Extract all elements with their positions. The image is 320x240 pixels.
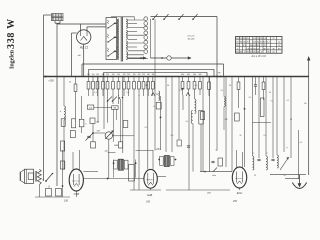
resistor R13 <box>187 77 190 96</box>
wire vertical V21 <box>202 77 204 172</box>
svg-text:1798: 1798 <box>73 192 79 196</box>
wire main HT bus <box>44 76 309 78</box>
bus junction right <box>216 76 218 78</box>
svg-text:242: 242 <box>145 201 151 204</box>
wire vertical V17 <box>188 95 190 190</box>
mains plug X1 <box>52 14 64 21</box>
wire vertical V5 <box>112 96 114 104</box>
wire second mains rail <box>56 26 58 186</box>
wire vertical V6 <box>118 95 120 104</box>
coil L11 <box>159 91 160 101</box>
coil L7 <box>266 156 267 170</box>
IF transformer IFT2 <box>160 156 174 167</box>
svg-text:2M: 2M <box>145 85 148 87</box>
svg-text:1M: 1M <box>87 74 90 76</box>
pickup arrowhead 2 <box>188 56 192 59</box>
wire vertical V4 <box>122 77 124 154</box>
resistor R12 <box>142 77 145 97</box>
coil L10 <box>224 77 225 130</box>
resistor R16 <box>208 77 211 97</box>
box R25 <box>60 161 65 169</box>
resistor R2 <box>92 77 95 97</box>
svg-text:5x8: 5x8 <box>89 107 92 109</box>
potentiometer P1 <box>105 130 113 139</box>
wire tube V4 bottom <box>239 188 241 190</box>
wire left mains rail <box>43 15 45 181</box>
wire bottom bus 2 <box>130 189 161 191</box>
resistor R11 <box>138 77 141 97</box>
svg-text:+250: +250 <box>48 80 54 83</box>
wire tube left lead <box>72 33 77 77</box>
wire vertical V25 <box>231 77 233 172</box>
box R27 <box>61 141 65 151</box>
wire vertical V27 <box>252 77 254 157</box>
wire vertical V34 <box>298 130 300 179</box>
wire vertical V11 <box>154 19 156 150</box>
wire tube1 right top <box>83 171 98 173</box>
svg-text:1M: 1M <box>102 74 105 76</box>
svg-text:1M: 1M <box>133 74 136 76</box>
svg-text:5k: 5k <box>269 92 271 94</box>
ground symbol E1 <box>292 175 306 189</box>
box IFT1 shield <box>129 165 135 182</box>
resistor R20a box <box>61 119 65 127</box>
wire transformer secondary taps <box>128 20 148 59</box>
wire vertical V9 <box>147 77 149 170</box>
bus junction left <box>45 76 47 78</box>
resistor R8 <box>123 77 126 97</box>
svg-text:50k: 50k <box>198 74 201 76</box>
capacitor C7 <box>271 158 274 160</box>
box C3 <box>153 103 161 110</box>
wire top switch bus <box>151 16 218 18</box>
wire right rail <box>308 58 310 176</box>
svg-text:50k: 50k <box>193 74 196 76</box>
svg-text:0,1: 0,1 <box>186 121 189 123</box>
svg-text:1M: 1M <box>225 119 228 121</box>
svg-text:50-150: 50-150 <box>188 39 196 41</box>
wire tube V3 bottom <box>150 188 152 190</box>
svg-text:ECH: ECH <box>237 191 243 195</box>
svg-text:0,5: 0,5 <box>195 85 198 87</box>
coil L3 <box>195 99 196 114</box>
svg-text:50k: 50k <box>181 74 184 76</box>
wire IFT1 left <box>108 151 153 178</box>
svg-text:1M: 1M <box>106 74 109 76</box>
junction dots S5 <box>119 97 121 99</box>
svg-text:*C: *C <box>270 101 273 103</box>
wire pickup line 2 <box>151 57 192 59</box>
coil L2 <box>64 77 65 171</box>
box R28 <box>118 142 122 148</box>
wire top rail y24 <box>57 23 106 25</box>
wire ladder bottom drop <box>150 55 152 58</box>
svg-text:+Hm: +Hm <box>155 148 160 151</box>
svg-text:+An: +An <box>104 150 108 153</box>
wire vertical V16 <box>182 95 184 110</box>
coil L8 <box>277 155 278 168</box>
pickup dot 2 <box>161 57 163 59</box>
wire R20c leads <box>81 96 83 133</box>
wire x62 <box>62 150 64 197</box>
svg-text:0.5-1.5: 0.5-1.5 <box>188 36 196 38</box>
svg-text:338 W: 338 W <box>6 18 17 49</box>
svg-text:1M: 1M <box>142 74 145 76</box>
IFT1 junction dots <box>113 162 115 164</box>
wire tube2 right <box>157 176 166 178</box>
resistor R10 <box>133 77 136 97</box>
wire ground line <box>270 174 306 176</box>
box R31 <box>177 140 181 146</box>
speaker LS1 <box>20 169 33 183</box>
wire tube V2 bottom <box>75 191 77 197</box>
svg-text:50: 50 <box>69 82 71 84</box>
box R21 <box>199 111 204 125</box>
wire P1 right <box>113 135 135 137</box>
box F1 <box>46 189 52 197</box>
wire rail C <box>104 72 207 76</box>
svg-text:1M: 1M <box>123 74 126 76</box>
tube V4 <box>232 167 246 188</box>
svg-text:2k: 2k <box>240 135 242 137</box>
svg-text:0,1: 0,1 <box>179 90 182 92</box>
wire vertical V33 <box>290 77 292 159</box>
wire bottom bus 3 <box>166 189 230 191</box>
wire coil bottom <box>38 185 40 197</box>
svg-text:250: 250 <box>206 193 211 195</box>
IFT2 junction dots <box>158 159 160 161</box>
svg-text:0,1: 0,1 <box>300 142 303 144</box>
svg-text:0,1: 0,1 <box>287 100 290 102</box>
svg-text:50: 50 <box>229 85 231 87</box>
resistor R19 <box>74 77 77 119</box>
resistor R15 <box>199 77 202 96</box>
wire rail A <box>82 64 224 77</box>
coil L6 <box>253 156 254 170</box>
right rail arrowhead <box>307 56 310 61</box>
svg-text:0,1: 0,1 <box>127 92 130 94</box>
wire vertical V30 <box>272 77 274 159</box>
field coil L9 zigzag <box>35 169 41 184</box>
box 10k <box>91 142 96 148</box>
wire AVC line <box>200 171 232 173</box>
wire tube pins up <box>81 24 107 30</box>
wire vertical V28 <box>258 77 260 159</box>
svg-text:25: 25 <box>254 175 256 177</box>
resistor R20c box <box>79 119 84 127</box>
wire vertical V3 <box>107 96 109 123</box>
voltage table <box>236 37 283 54</box>
resistor R14 <box>193 77 196 96</box>
wire bottom left bus <box>35 196 70 198</box>
bus dot x220 <box>220 76 222 78</box>
trimmer arrow C8 <box>280 158 289 171</box>
wire ladder rail <box>150 19 152 55</box>
wire plug bottom leads <box>55 21 60 26</box>
junction dot mid <box>160 117 162 119</box>
capacitor C6 <box>257 158 260 160</box>
wire vertical V10 <box>152 150 154 169</box>
capacitor C20 <box>254 77 257 96</box>
IF transformer IFT1 <box>114 159 128 170</box>
svg-text:0,1: 0,1 <box>284 175 287 177</box>
junction dot R12 <box>182 88 184 90</box>
wire P1 down <box>108 139 110 178</box>
resistor R3 <box>96 77 99 97</box>
svg-text:0,2: 0,2 <box>145 127 148 129</box>
capacitor C1 <box>151 93 155 97</box>
resistor R18 <box>262 77 265 101</box>
pickup dot 1 <box>140 57 142 59</box>
switch S3 <box>45 173 53 182</box>
box 5x8 <box>87 105 94 109</box>
svg-text:A: A <box>41 178 44 182</box>
box R22 <box>235 113 240 121</box>
wire vertical V15 <box>178 77 180 140</box>
wire vertical V12 <box>160 96 162 150</box>
junction dot x62 <box>62 185 64 187</box>
resistor R12 <box>181 77 184 96</box>
title Ingelen 338 W (rotated) <box>6 18 17 69</box>
wire tube bottom lead <box>83 44 85 76</box>
resistor R14 <box>151 77 154 97</box>
output tube V2 <box>69 169 83 191</box>
svg-text:1M: 1M <box>96 74 99 76</box>
wire tube1 top leads <box>73 150 80 170</box>
resistor R4 <box>102 77 105 97</box>
svg-text:Am L W v=0: Am L W v=0 <box>250 54 266 58</box>
resistor R5 <box>106 77 109 97</box>
box F2 <box>56 189 62 197</box>
wire ground stub <box>285 177 300 179</box>
wire transformer top lead <box>111 17 135 20</box>
pickup arrowhead 1 <box>143 56 147 59</box>
wire box link <box>94 106 112 108</box>
capacitor C21 <box>211 160 214 162</box>
svg-text:50: 50 <box>290 119 292 121</box>
wire vertical V14 <box>171 77 173 153</box>
power transformer T1 <box>117 17 127 62</box>
wire tube V4 leads <box>237 150 243 168</box>
wire S5 drop <box>120 99 122 142</box>
coil L4 <box>191 111 193 124</box>
rectifier tube V1 AZ11 <box>77 30 91 44</box>
wire vertical V20 <box>200 124 202 172</box>
value labels sprinkle <box>69 82 302 178</box>
svg-text:0,1: 0,1 <box>249 97 252 99</box>
box U2 <box>90 118 95 124</box>
wire vertical V18 <box>194 95 196 99</box>
wire vertical V23 <box>216 77 218 151</box>
box MB <box>112 106 119 110</box>
terminal strip ladder <box>144 17 148 54</box>
svg-text:0,1: 0,1 <box>94 92 97 94</box>
svg-text:Ingelen: Ingelen <box>10 49 16 69</box>
wire right drop from switch bus <box>216 17 218 77</box>
voltage selector box S1 <box>106 18 117 60</box>
wire vertical V19 <box>192 124 194 172</box>
tube V3 <box>144 169 157 188</box>
wire vertical V31 <box>276 77 278 156</box>
wire vertical V1 <box>97 77 99 123</box>
svg-text:50: 50 <box>215 150 217 152</box>
svg-text:0,1: 0,1 <box>221 90 224 92</box>
resistor R20b box <box>72 119 76 128</box>
resistor R13 <box>147 77 150 97</box>
svg-text:4MB: 4MB <box>114 145 119 147</box>
svg-text:1M: 1M <box>156 94 159 96</box>
wire NF node <box>92 124 105 142</box>
svg-text:1M: 1M <box>112 74 115 76</box>
svg-text:180: 180 <box>64 200 69 203</box>
box R24 <box>70 131 75 138</box>
wire cathode link <box>83 178 143 180</box>
box R26 <box>218 158 223 166</box>
wire vertical V24 <box>225 77 227 168</box>
svg-text:-Hm: -Hm <box>212 175 216 177</box>
wire det link <box>253 121 272 123</box>
svg-text:1M: 1M <box>117 74 120 76</box>
wire rail B <box>89 69 214 76</box>
box R30 <box>201 112 205 120</box>
svg-text:1M: 1M <box>92 74 95 76</box>
wire vertical V7 <box>133 96 135 190</box>
capacitor C22 <box>187 145 190 147</box>
resistor R17 <box>237 77 240 109</box>
switch S5a <box>107 97 112 102</box>
svg-text:1M: 1M <box>127 74 130 76</box>
wire vertical V13 <box>165 77 167 153</box>
wire vertical V2 <box>103 77 105 130</box>
resistor R1 <box>87 77 90 97</box>
junction dot C4 <box>244 108 246 110</box>
box R23 <box>123 121 128 128</box>
svg-text:50k: 50k <box>187 74 190 76</box>
wire S5 drops <box>114 109 117 141</box>
wire vertical V8 <box>138 95 140 190</box>
svg-text:1M: 1M <box>151 74 154 76</box>
wire selector contacts <box>114 23 118 51</box>
pickup coupler circle <box>167 56 171 60</box>
resistor R9 <box>127 77 130 97</box>
resistor R6 <box>112 77 115 97</box>
wire pickup line 1 <box>128 57 146 59</box>
svg-text:1M: 1M <box>147 74 150 76</box>
capacitor C2 <box>186 93 190 97</box>
svg-text:0,2: 0,2 <box>264 135 267 137</box>
band switch contacts S2 <box>152 14 197 20</box>
switch S5b <box>112 97 117 102</box>
wire vertical V32 <box>283 77 285 153</box>
svg-text:0,5: 0,5 <box>171 135 174 137</box>
wire vertical V29 <box>265 77 267 157</box>
wire vertical V26 <box>244 77 246 168</box>
svg-text:1M: 1M <box>138 74 141 76</box>
resistor R7 <box>117 77 120 97</box>
svg-text:252: 252 <box>232 200 238 203</box>
wire vertical V22 <box>209 77 211 172</box>
trimmer C5 <box>86 134 93 141</box>
svg-text:50: 50 <box>167 85 169 87</box>
wire plug to left rail <box>44 14 52 16</box>
svg-text:EaB: EaB <box>147 193 152 197</box>
switch S4 <box>213 168 217 173</box>
box R29 tall <box>260 98 264 117</box>
